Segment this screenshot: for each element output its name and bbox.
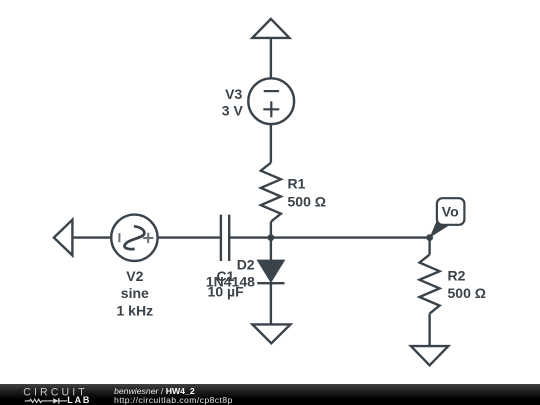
V2 minus terminal bar (118, 233, 120, 242)
svg-text:Vo: Vo (442, 204, 459, 220)
Vo flag pointer (429, 220, 448, 238)
V3 plus sign (263, 101, 279, 117)
diode D2 (258, 261, 283, 282)
V3 minus sign (264, 90, 279, 92)
logo diode (53, 398, 58, 403)
node junction dot at Vo (426, 234, 433, 241)
svg-text:3 V: 3 V (222, 102, 244, 118)
resistor R1 (261, 163, 281, 222)
svg-text:D2: D2 (237, 257, 255, 273)
ground port triangle below R2 (411, 346, 448, 365)
voltage source V2 circle (111, 215, 157, 261)
svg-text:R1: R1 (288, 176, 306, 192)
port symbol left (V2 input) (54, 220, 73, 256)
wire (270, 222, 272, 238)
svg-text:LAB: LAB (67, 395, 91, 405)
V2 sine squiggle (124, 226, 144, 249)
Vo flag box (437, 198, 465, 225)
svg-text:500 Ω: 500 Ω (288, 194, 326, 210)
svg-text:V2: V2 (126, 268, 143, 284)
voltage source V3 circle (248, 78, 294, 124)
node junction dot at R1/D2 (268, 234, 275, 241)
logo resistor squiggle (25, 399, 48, 402)
wire (72, 236, 111, 238)
V2 plus sign (143, 233, 153, 243)
svg-text:1 kHz: 1 kHz (117, 302, 154, 318)
diode D2 cathode bar (257, 282, 284, 284)
wire (428, 314, 430, 347)
svg-text:R2: R2 (448, 267, 466, 283)
svg-text:500 Ω: 500 Ω (448, 285, 486, 301)
resistor R2 (420, 255, 440, 314)
port symbol up (V3 supply) (252, 19, 289, 38)
svg-text:V3: V3 (225, 86, 242, 102)
capacitor C1 right plate (228, 215, 230, 261)
footer bar (0, 384, 540, 405)
svg-text:sine: sine (121, 285, 149, 301)
wire (270, 238, 272, 261)
footer credit line (114, 387, 195, 396)
wire (158, 236, 221, 238)
wire main horizontal (229, 236, 429, 238)
wire (270, 124, 272, 163)
wire (270, 38, 272, 79)
footer url line (114, 396, 233, 405)
svg-text:10 µF: 10 µF (208, 284, 245, 300)
capacitor C1 left plate (220, 215, 222, 261)
ground port triangle below D2 (252, 324, 290, 343)
wire (270, 283, 272, 324)
wire (428, 238, 430, 255)
